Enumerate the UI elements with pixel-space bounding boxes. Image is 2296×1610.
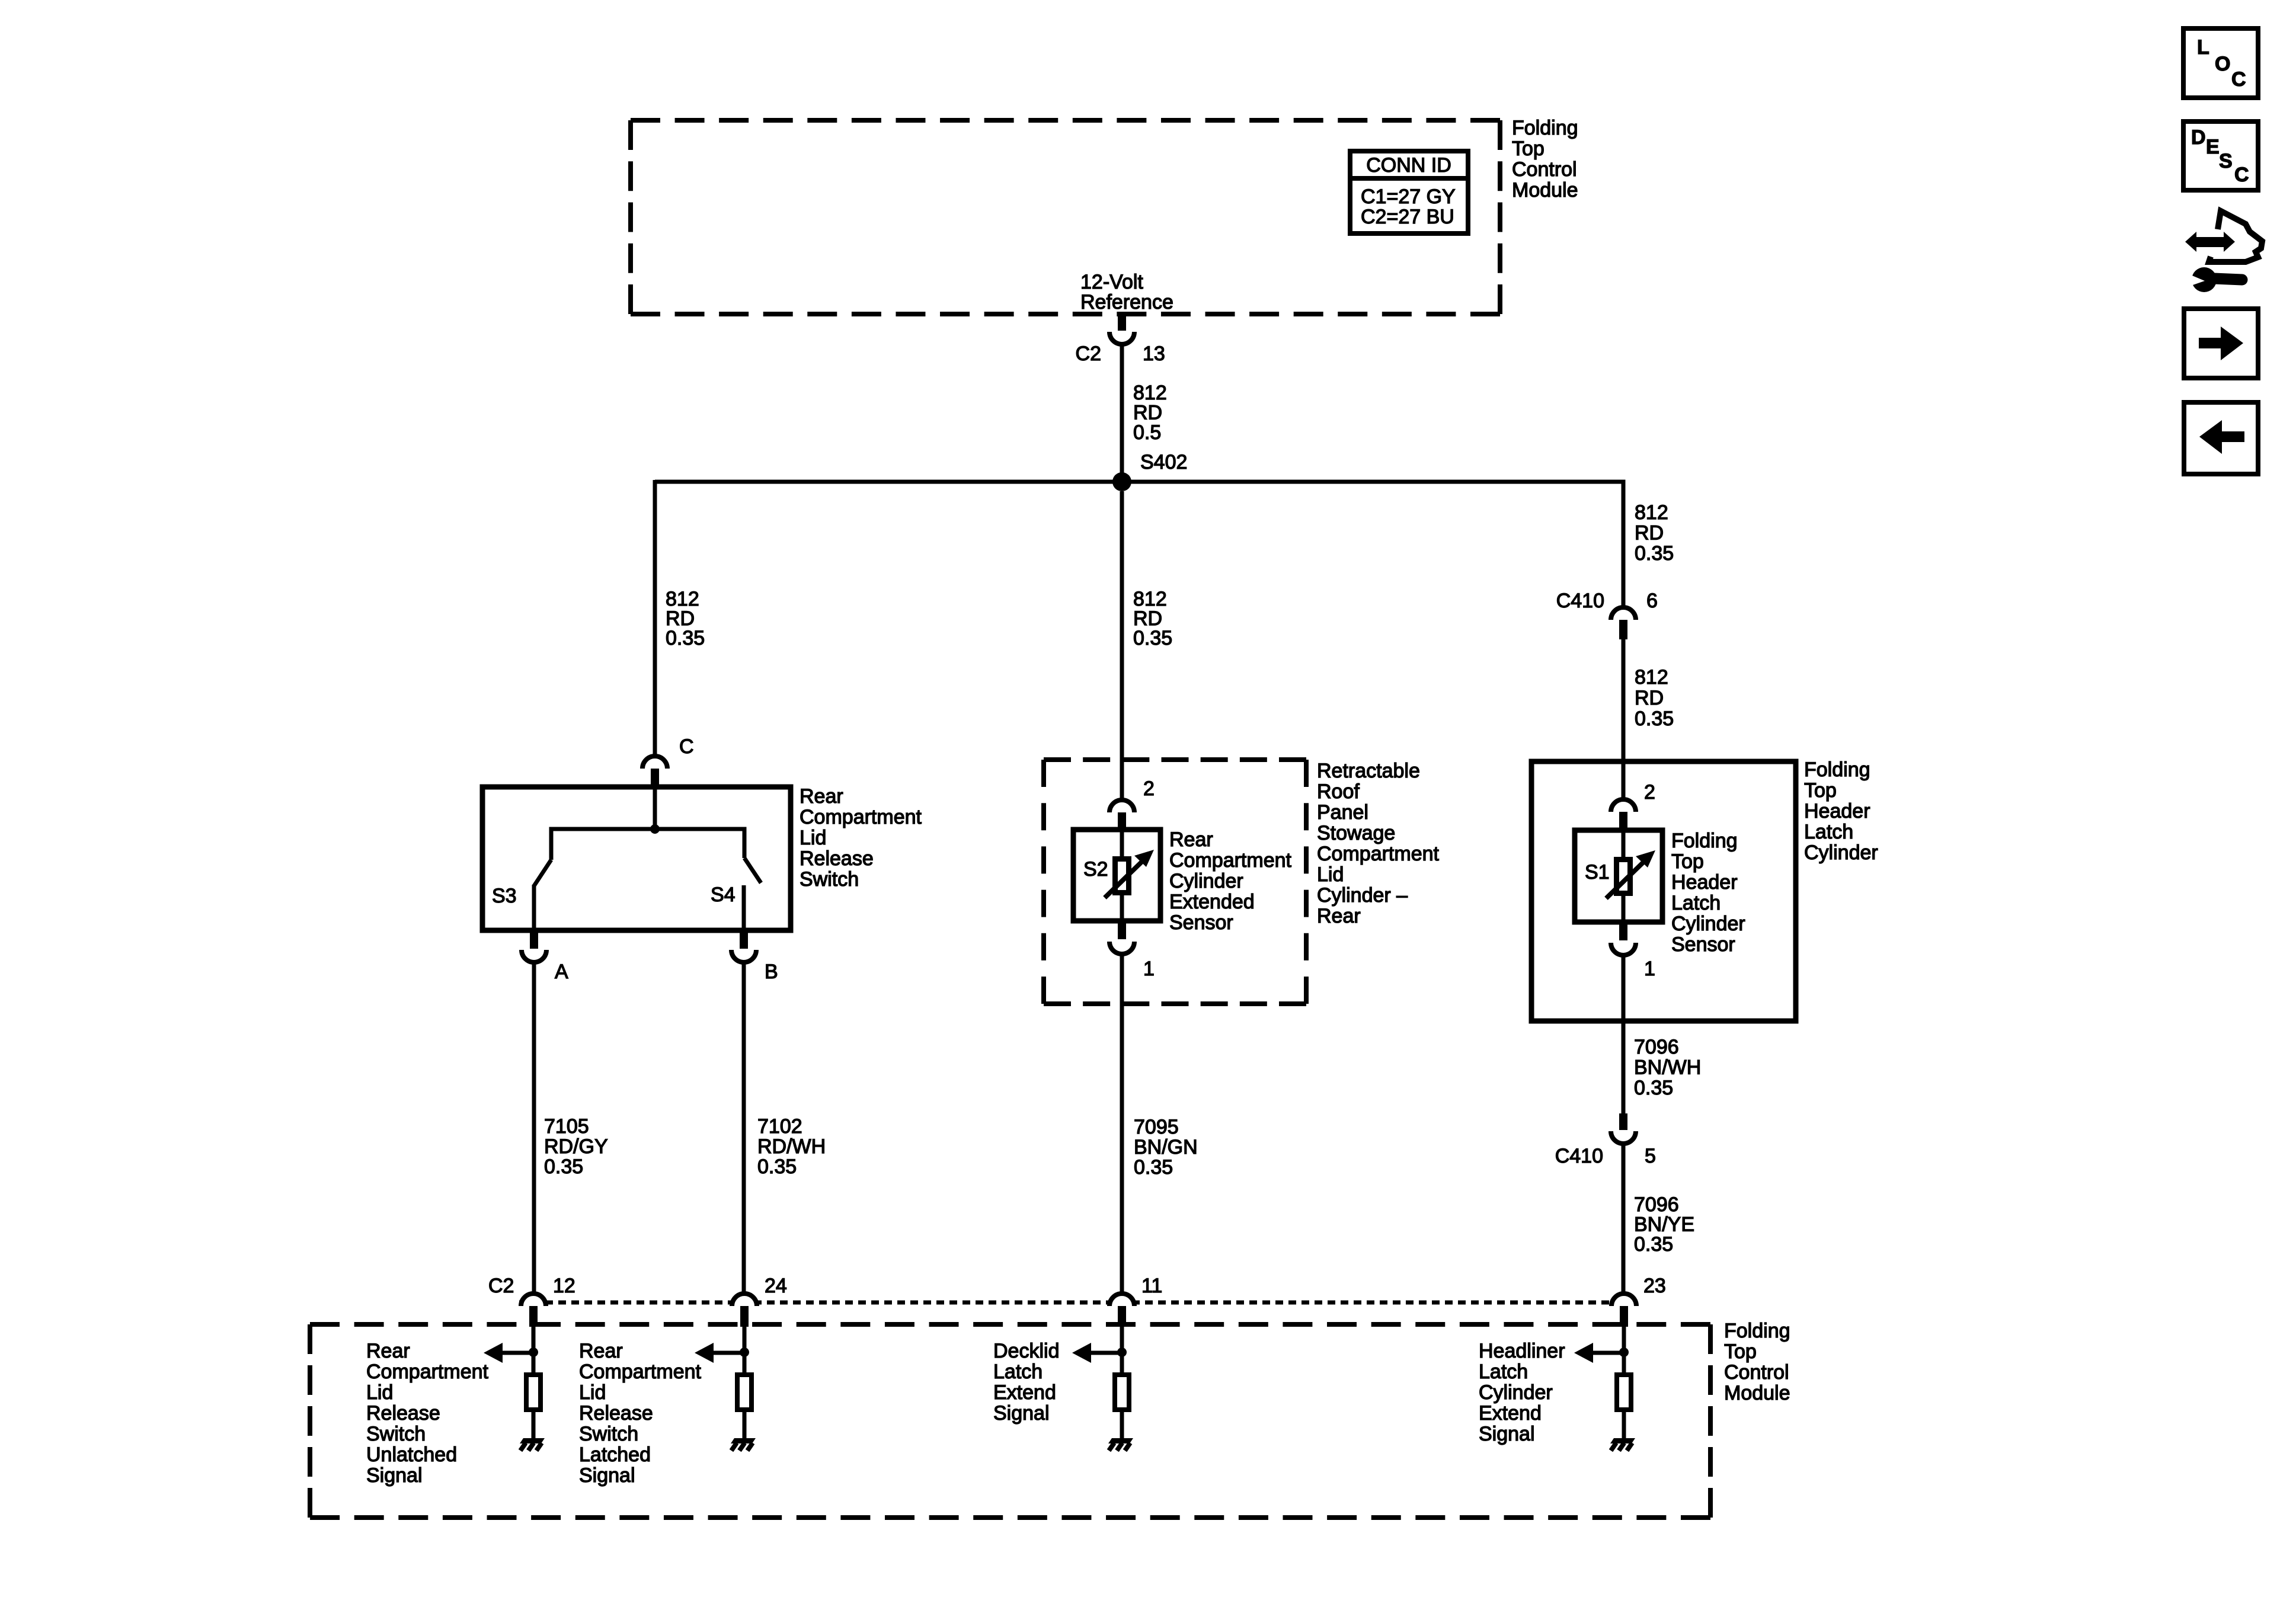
connector pin 24 (bottom module) bbox=[732, 1294, 757, 1306]
svg-text:BN/WH: BN/WH bbox=[1634, 1057, 1701, 1079]
signal arrow pin 23 bbox=[1592, 1351, 1624, 1355]
svg-text:Stowage: Stowage bbox=[1317, 822, 1395, 844]
wire to ground pin 24 bbox=[743, 1412, 747, 1439]
svg-text:C2: C2 bbox=[1076, 343, 1101, 365]
svg-text:Lid: Lid bbox=[366, 1381, 393, 1404]
wire to ground pin 12 bbox=[532, 1412, 536, 1439]
wire: middle branch 812 RD 0.35 bbox=[1120, 491, 1124, 798]
svg-text:Sensor: Sensor bbox=[1671, 933, 1735, 956]
svg-text:Control: Control bbox=[1724, 1361, 1789, 1384]
ground bbox=[731, 1438, 756, 1443]
switch S4 (open) bbox=[744, 858, 761, 883]
connector pin A bbox=[530, 928, 538, 949]
svg-text:Folding: Folding bbox=[1724, 1320, 1790, 1342]
svg-text:23: 23 bbox=[1643, 1275, 1666, 1297]
svg-text:Control: Control bbox=[1512, 158, 1577, 181]
svg-text:Extend: Extend bbox=[993, 1381, 1056, 1404]
svg-text:0.35: 0.35 bbox=[1634, 1077, 1673, 1099]
svg-text:2: 2 bbox=[1644, 781, 1655, 804]
node: pin 12 junction bbox=[529, 1347, 538, 1357]
wire: circuit 7096 BN/WH 0.35 bbox=[1622, 955, 1626, 1113]
svg-text:C2: C2 bbox=[488, 1275, 514, 1297]
svg-text:1: 1 bbox=[1143, 958, 1155, 980]
svg-text:Lid: Lid bbox=[800, 827, 826, 849]
svg-text:Compartment: Compartment bbox=[800, 806, 922, 828]
svg-text:RD: RD bbox=[1133, 402, 1162, 424]
wire: left branch 812 RD 0.35 bbox=[653, 480, 657, 756]
svg-text:A: A bbox=[555, 961, 568, 983]
connector S1 pin 2 bbox=[1611, 799, 1636, 812]
connector pin 23 (bottom module) bbox=[1611, 1294, 1636, 1306]
svg-text:7102: 7102 bbox=[757, 1115, 802, 1138]
svg-text:L: L bbox=[2197, 36, 2209, 59]
svg-text:Top: Top bbox=[1724, 1340, 1757, 1363]
svg-text:C: C bbox=[679, 735, 694, 758]
svg-text:Folding: Folding bbox=[1512, 117, 1578, 139]
svg-text:5: 5 bbox=[1645, 1145, 1656, 1167]
svg-text:7096: 7096 bbox=[1634, 1193, 1679, 1216]
node: pin 11 junction bbox=[1117, 1347, 1127, 1357]
svg-text:Headliner: Headliner bbox=[1479, 1340, 1565, 1362]
svg-text:Sensor: Sensor bbox=[1169, 911, 1233, 934]
svg-text:0.35: 0.35 bbox=[1635, 542, 1674, 565]
wire: right branch 812 RD 0.35 (upper) bbox=[1622, 482, 1623, 606]
svg-text:Rear: Rear bbox=[800, 785, 843, 808]
wire: bus from S402 bbox=[655, 480, 1623, 484]
svg-text:Cylinder: Cylinder bbox=[1479, 1381, 1553, 1404]
wire: circuit 7096 BN/YE 0.35 bbox=[1622, 1144, 1626, 1292]
svg-text:BN/YE: BN/YE bbox=[1634, 1214, 1694, 1236]
connector C410 pin 5 bbox=[1619, 1113, 1627, 1130]
svg-text:12-Volt: 12-Volt bbox=[1080, 271, 1143, 293]
icon: next (right arrow) button bbox=[2184, 309, 2258, 378]
svg-text:C410: C410 bbox=[1555, 1145, 1603, 1167]
svg-text:2: 2 bbox=[1143, 777, 1155, 800]
svg-text:Extend: Extend bbox=[1479, 1402, 1542, 1425]
svg-text:0.35: 0.35 bbox=[1133, 627, 1172, 649]
svg-text:Latch: Latch bbox=[993, 1361, 1043, 1383]
wire: circuit 7105 RD/GY 0.35 bbox=[532, 962, 536, 1292]
svg-text:0.35: 0.35 bbox=[757, 1156, 797, 1178]
svg-text:S: S bbox=[2219, 150, 2233, 172]
svg-text:Latch: Latch bbox=[1804, 821, 1853, 843]
svg-text:S4: S4 bbox=[711, 884, 736, 906]
resistor (pull-up) pin 11 bbox=[1115, 1375, 1129, 1410]
svg-text:Panel: Panel bbox=[1317, 801, 1368, 824]
svg-text:Rear: Rear bbox=[1169, 828, 1213, 851]
icon: back (left arrow) button bbox=[2184, 402, 2258, 474]
signal arrow pin 11 bbox=[1090, 1351, 1122, 1355]
svg-text:Latched: Latched bbox=[579, 1443, 651, 1466]
resistor (pull-up) pin 24 bbox=[737, 1375, 752, 1410]
svg-text:Reference: Reference bbox=[1080, 291, 1173, 313]
wire: pin 23 internal bbox=[1622, 1327, 1626, 1373]
svg-text:12: 12 bbox=[553, 1275, 575, 1297]
svg-text:RD/WH: RD/WH bbox=[757, 1135, 826, 1158]
component box: sensor S2 bbox=[1073, 830, 1160, 921]
svg-text:Folding: Folding bbox=[1671, 830, 1738, 852]
component box: Rear Compartment Lid Release Switch bbox=[482, 787, 791, 930]
resistor (pull-up) pin 12 bbox=[526, 1375, 541, 1410]
svg-text:Compartment: Compartment bbox=[579, 1361, 702, 1383]
svg-text:BN/GN: BN/GN bbox=[1134, 1136, 1198, 1158]
svg-text:E: E bbox=[2206, 136, 2220, 158]
svg-text:S1: S1 bbox=[1585, 861, 1610, 884]
connector S2 pin 2 bbox=[1109, 800, 1134, 812]
svg-text:Rear: Rear bbox=[1317, 905, 1361, 927]
svg-text:812: 812 bbox=[1133, 382, 1167, 404]
component box: Folding Top Header Latch Cylinder bbox=[1531, 761, 1796, 1021]
wire: S1 internal bbox=[1622, 833, 1626, 858]
svg-text:Unlatched: Unlatched bbox=[366, 1443, 457, 1466]
wire: pin 12 internal bbox=[532, 1327, 536, 1373]
svg-text:Retractable: Retractable bbox=[1317, 760, 1420, 782]
svg-text:812: 812 bbox=[1635, 501, 1668, 524]
svg-text:1: 1 bbox=[1644, 958, 1655, 980]
svg-text:RD: RD bbox=[1635, 687, 1664, 709]
svg-text:Switch: Switch bbox=[366, 1423, 426, 1445]
svg-text:Top: Top bbox=[1671, 850, 1704, 873]
svg-text:C410: C410 bbox=[1556, 590, 1604, 612]
svg-text:Extended: Extended bbox=[1169, 891, 1255, 913]
connector C2 pin 13 bbox=[1118, 312, 1126, 331]
svg-text:Header: Header bbox=[1804, 800, 1870, 822]
svg-text:Compartment: Compartment bbox=[1317, 843, 1440, 865]
icon: component locator (car with arrows and wrench) bbox=[2224, 232, 2235, 252]
svg-text:Switch: Switch bbox=[579, 1423, 638, 1445]
svg-text:O: O bbox=[2215, 53, 2230, 75]
wire: switch inner bus bbox=[551, 829, 744, 860]
connector row (dotted) of bottom module bbox=[519, 1301, 1639, 1305]
svg-text:0.35: 0.35 bbox=[666, 627, 705, 649]
svg-text:Signal: Signal bbox=[366, 1464, 423, 1487]
svg-text:0.35: 0.35 bbox=[1635, 708, 1674, 730]
potentiometer symbol S1 bbox=[1617, 860, 1630, 894]
module box: Folding Top Control Module (top) bbox=[631, 118, 1500, 123]
svg-text:812: 812 bbox=[1635, 666, 1668, 689]
svg-text:RD: RD bbox=[1635, 522, 1664, 545]
svg-text:Signal: Signal bbox=[1479, 1423, 1535, 1445]
connector C410 pin 6 bbox=[1611, 607, 1636, 620]
svg-text:Compartment: Compartment bbox=[366, 1361, 489, 1383]
svg-text:Cylinder: Cylinder bbox=[1671, 913, 1745, 935]
svg-text:11: 11 bbox=[1141, 1275, 1162, 1297]
svg-text:6: 6 bbox=[1646, 590, 1658, 612]
svg-text:0.35: 0.35 bbox=[1134, 1156, 1173, 1179]
connector pin 12 (bottom module) bbox=[521, 1294, 546, 1306]
svg-text:Release: Release bbox=[366, 1402, 440, 1425]
svg-text:Cylinder –: Cylinder – bbox=[1317, 884, 1408, 907]
connector pin 11 (bottom module) bbox=[1109, 1294, 1134, 1306]
svg-text:C: C bbox=[2231, 68, 2246, 91]
resistor (pull-up) pin 23 bbox=[1617, 1375, 1631, 1410]
icon: DESC button bbox=[2183, 121, 2258, 190]
svg-text:B: B bbox=[765, 961, 778, 983]
wire: 812 RD 0.35 below C410 bbox=[1622, 639, 1626, 798]
svg-text:S3: S3 bbox=[492, 885, 517, 907]
svg-text:C1=27 GY: C1=27 GY bbox=[1361, 185, 1456, 208]
svg-text:Release: Release bbox=[800, 847, 874, 870]
svg-text:Signal: Signal bbox=[579, 1464, 635, 1487]
wire: S2 internal bbox=[1120, 832, 1124, 857]
svg-text:7105: 7105 bbox=[544, 1115, 589, 1138]
wire: pin 24 internal bbox=[743, 1327, 747, 1373]
svg-text:Rear: Rear bbox=[366, 1340, 410, 1362]
svg-text:C2=27 BU: C2=27 BU bbox=[1361, 206, 1454, 228]
svg-text:Cylinder: Cylinder bbox=[1804, 841, 1878, 864]
component box: sensor S1 bbox=[1575, 830, 1662, 922]
ground bbox=[520, 1438, 545, 1443]
svg-text:Decklid: Decklid bbox=[993, 1340, 1059, 1362]
connector S1 pin 1 bbox=[1619, 920, 1627, 940]
potentiometer symbol S2 bbox=[1115, 859, 1129, 893]
svg-text:Roof: Roof bbox=[1317, 780, 1360, 803]
wire: switch common bbox=[653, 789, 657, 829]
svg-text:Module: Module bbox=[1724, 1382, 1790, 1404]
svg-text:Rear: Rear bbox=[579, 1340, 623, 1362]
svg-text:0.35: 0.35 bbox=[1634, 1233, 1673, 1256]
svg-text:RD/GY: RD/GY bbox=[544, 1135, 608, 1158]
node: pin 24 junction bbox=[740, 1347, 749, 1357]
connector pin B bbox=[740, 928, 748, 949]
svg-text:0.35: 0.35 bbox=[544, 1156, 583, 1178]
svg-text:Latch: Latch bbox=[1479, 1361, 1528, 1383]
icon: LOC button bbox=[2183, 28, 2258, 98]
svg-text:Lid: Lid bbox=[1317, 863, 1344, 886]
svg-text:Lid: Lid bbox=[579, 1381, 606, 1404]
svg-text:D: D bbox=[2191, 126, 2206, 149]
connector C of release switch bbox=[642, 756, 667, 769]
svg-text:S402: S402 bbox=[1140, 451, 1187, 473]
signal arrow pin 24 bbox=[712, 1351, 744, 1355]
wire: circuit 7102 RD/WH 0.35 bbox=[742, 962, 746, 1292]
svg-text:0.5: 0.5 bbox=[1133, 421, 1161, 444]
node: pin 23 junction bbox=[1619, 1347, 1629, 1357]
svg-text:Top: Top bbox=[1512, 137, 1544, 160]
wire: pin 11 internal bbox=[1120, 1327, 1124, 1373]
svg-text:Folding: Folding bbox=[1804, 758, 1870, 781]
svg-text:Module: Module bbox=[1512, 179, 1578, 201]
svg-text:7096: 7096 bbox=[1634, 1036, 1679, 1058]
svg-text:13: 13 bbox=[1143, 343, 1165, 365]
node S402 splice bbox=[1112, 472, 1131, 491]
svg-text:CONN ID: CONN ID bbox=[1366, 154, 1451, 177]
svg-text:Top: Top bbox=[1804, 779, 1837, 802]
node: switch common junction bbox=[650, 824, 660, 834]
svg-text:Cylinder: Cylinder bbox=[1169, 870, 1243, 892]
svg-text:Release: Release bbox=[579, 1402, 653, 1425]
ground bbox=[1610, 1438, 1635, 1443]
connector S2 pin 1 bbox=[1118, 918, 1126, 939]
wire to ground pin 23 bbox=[1622, 1412, 1626, 1439]
wire: circuit 7095 BN/GN 0.35 bbox=[1120, 954, 1124, 1292]
svg-text:Signal: Signal bbox=[993, 1402, 1050, 1425]
svg-text:Header: Header bbox=[1671, 871, 1738, 894]
module box: Retractable Roof Panel Stowage Compartment Lid Cylinder - Rear bbox=[1044, 757, 1306, 762]
svg-text:Latch: Latch bbox=[1671, 892, 1721, 914]
svg-text:S2: S2 bbox=[1083, 858, 1108, 881]
svg-text:Switch: Switch bbox=[800, 868, 859, 891]
svg-text:Compartment: Compartment bbox=[1169, 849, 1292, 872]
switch S3 (closed) bbox=[534, 860, 551, 886]
module box: Folding Top Control Module (bottom) bbox=[310, 1322, 1710, 1327]
signal arrow pin 12 bbox=[501, 1351, 533, 1355]
svg-text:C: C bbox=[2234, 164, 2249, 186]
svg-text:7095: 7095 bbox=[1134, 1116, 1179, 1138]
CONN ID table bbox=[1350, 151, 1468, 233]
ground bbox=[1108, 1438, 1133, 1443]
svg-text:24: 24 bbox=[765, 1275, 787, 1297]
wire to ground pin 11 bbox=[1120, 1412, 1124, 1439]
wire: circuit 812 RD 0.5 bbox=[1120, 344, 1124, 482]
